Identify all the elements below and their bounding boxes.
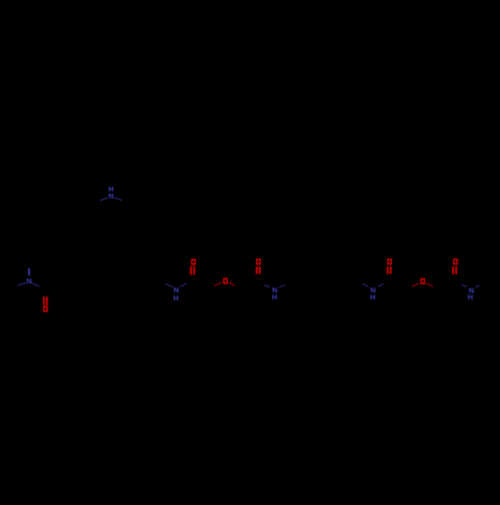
svg-text:H: H <box>173 293 178 302</box>
svg-text:N: N <box>27 277 32 286</box>
svg-text:H: H <box>468 293 473 302</box>
svg-text:H: H <box>370 293 375 302</box>
svg-text:H: H <box>272 293 277 302</box>
svg-text:N: N <box>108 192 113 201</box>
